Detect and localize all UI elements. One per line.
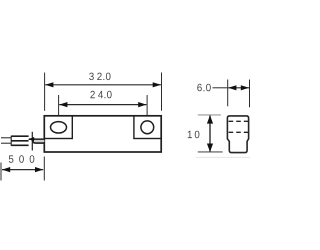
bottom tick of 10 — [198, 151, 223, 153]
dimension line 32.0 — [45, 84, 161, 86]
extension line right of 6.0 — [249, 80, 251, 108]
right mounting tab — [134, 116, 161, 139]
arrowhead right 6.0 — [241, 85, 249, 90]
cable middle line — [11, 140, 28, 142]
extension line right of 24.0 — [146, 95, 148, 121]
cable stub bottom with hook — [33, 141, 45, 144]
arrowhead left 500 — [2, 167, 10, 172]
hidden line 2 (dashed) — [229, 131, 248, 133]
cable stub top with arrow — [29, 137, 45, 142]
faint shadow line under end view — [196, 156, 250, 158]
left mounting hole — [51, 122, 67, 133]
arrowhead left 6.0 — [228, 85, 236, 90]
bare wire bottom — [1, 142, 11, 144]
dimension line 24.0 — [59, 104, 146, 106]
extension line left of 500 — [0, 163, 2, 181]
arrowhead right 24.0 — [138, 102, 146, 107]
leader line 6.0 — [213, 87, 228, 89]
label 32.0 — [89, 73, 110, 81]
dimension line 10 — [209, 116, 211, 152]
dimension line 6.0 — [228, 87, 249, 89]
extension line right of 32.0 — [161, 73, 163, 111]
arrowhead down 10 — [207, 144, 213, 152]
cable stub shading — [35, 140, 45, 142]
dimension 6.0 — [213, 80, 250, 108]
arrowhead right 500 — [35, 167, 43, 172]
dimension 500 — [1, 157, 44, 181]
dimension 32.0 — [45, 73, 162, 111]
label 500 — [9, 155, 35, 163]
cable end cap — [10, 136, 12, 146]
label 6.0 — [197, 84, 210, 92]
cable top edge — [11, 135, 28, 137]
arrowhead right 32.0 — [153, 82, 161, 87]
top tick of 10 — [198, 114, 221, 116]
switch body side view — [44, 116, 161, 152]
bare wire top — [1, 137, 11, 139]
right mounting hole — [141, 121, 154, 134]
extension line left of 6.0 — [227, 80, 229, 107]
arrowhead left 32.0 — [45, 82, 53, 87]
label 24.0 — [90, 91, 111, 99]
dimension 24.0 — [59, 95, 148, 123]
extension line right of 500 — [43, 157, 45, 181]
dimension line 500 — [2, 169, 43, 171]
magnet end view — [227, 116, 248, 153]
arrowhead left 24.0 — [59, 102, 67, 107]
left mounting tab — [44, 116, 72, 139]
arrowhead up 10 — [207, 115, 213, 123]
label 10 — [188, 131, 200, 139]
hidden line 1 (dashed) — [229, 120, 248, 122]
extension line left of 24.0 — [58, 95, 60, 123]
cable bottom edge — [11, 144, 28, 146]
cable break line — [31, 132, 33, 151]
extension line left of 32.0 — [44, 73, 46, 111]
